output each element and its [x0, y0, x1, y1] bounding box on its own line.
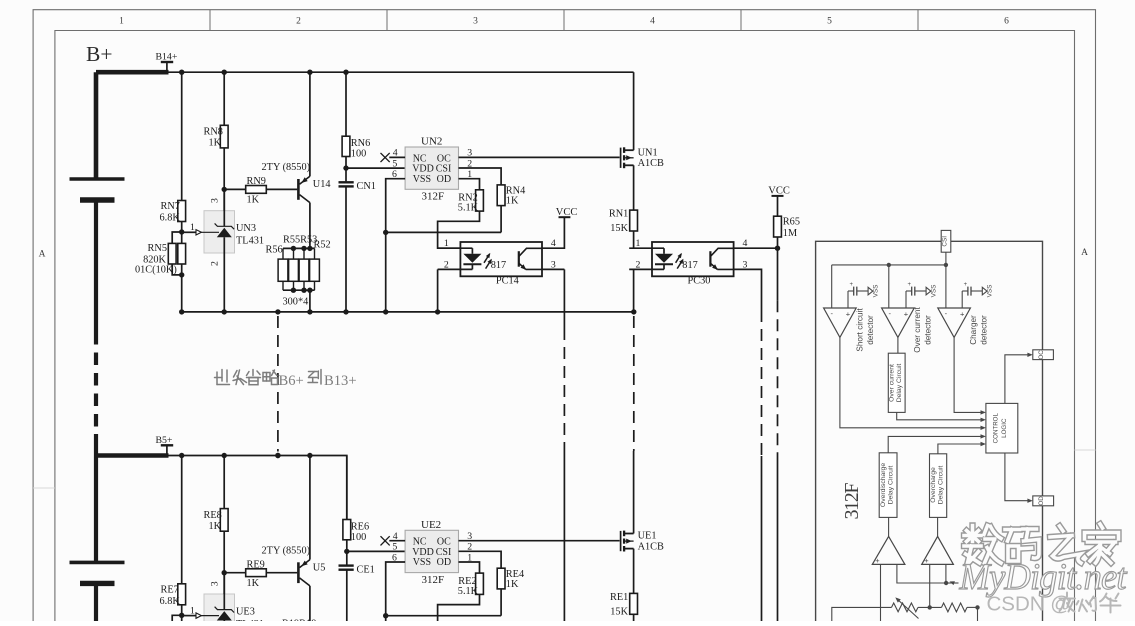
- svg-text:RE8: RE8: [204, 510, 222, 521]
- comparator Over current VSS arrow: [915, 290, 926, 292]
- svg-text:PC30: PC30: [688, 275, 711, 286]
- svg-text:R55R53: R55R53: [283, 235, 317, 246]
- wire RE6 to VDD node: [346, 540, 348, 565]
- svg-text:VSS: VSS: [987, 285, 994, 298]
- wire overdischarge comparator input 2: [897, 564, 946, 583]
- svg-text:817: 817: [491, 260, 506, 271]
- svg-text:Over current: Over current: [913, 307, 922, 353]
- wire to RN9: [224, 188, 246, 190]
- wire source of UN1 to RN1: [633, 165, 635, 210]
- svg-text:Overdischarge: Overdischarge: [880, 463, 887, 507]
- svg-text:RE9: RE9: [247, 559, 265, 570]
- resistor bank top bar: [283, 247, 315, 249]
- wire CSI pin 2 to RE4: [459, 551, 502, 568]
- svg-text:RN8: RN8: [204, 127, 223, 138]
- wire RE7 to divider node: [181, 605, 183, 616]
- svg-text:Short circuit: Short circuit: [856, 308, 865, 352]
- wire RN7 to divider node: [181, 222, 183, 233]
- svg-text:1: 1: [119, 17, 124, 27]
- wire RN9 to base of U14: [266, 188, 297, 190]
- resistor RE1: [630, 593, 638, 614]
- svg-text:UE2: UE2: [421, 519, 441, 531]
- svg-text:OD: OD: [437, 174, 451, 185]
- divider resistor zigzag: [942, 603, 968, 612]
- junction dashed at B5+ bus: [275, 453, 280, 458]
- wire collector down (clipped): [309, 586, 311, 621]
- svg-text:100: 100: [351, 149, 366, 160]
- svg-text:VSS: VSS: [872, 285, 879, 298]
- PC14 phototransistor base bar: [518, 251, 520, 267]
- right margin row divider: [1075, 449, 1096, 451]
- wire RN4 to VSS return: [500, 206, 502, 233]
- pin 4 stub with no-connect X: [389, 156, 405, 158]
- wire OD pin 1 to RN2: [459, 179, 480, 190]
- battery B5 positive plate: [70, 561, 125, 565]
- dashed wire PC14 pin3 net to lower section: [563, 328, 565, 451]
- svg-text:3: 3: [210, 198, 221, 203]
- power symbol VCC (PC14): [559, 216, 571, 218]
- svg-text:1: 1: [190, 605, 195, 616]
- block Over current Delay Circuit: [888, 353, 905, 412]
- svg-text:B14+: B14+: [156, 52, 178, 63]
- comparator Charger reference input wire: [961, 291, 963, 308]
- svg-text:B6+: B6+: [279, 373, 304, 389]
- resistor RN8: [220, 125, 228, 148]
- wire divider to lower bus: [181, 275, 183, 312]
- wire overdischarge comparator input 1: [880, 564, 882, 621]
- svg-text:5.1K: 5.1K: [458, 586, 479, 597]
- wire RN2 to opto LED anode: [438, 211, 480, 248]
- wire VDD node to pin 5: [347, 550, 405, 552]
- wire divider to output: [967, 606, 978, 608]
- MOSFET UE1 gate bar: [620, 531, 622, 551]
- transistor U14 collector: [300, 195, 310, 203]
- wire RE1 down: [633, 614, 635, 621]
- left margin row divider: [33, 487, 55, 489]
- svg-text:CE1: CE1: [357, 564, 375, 575]
- svg-text:CSDN @: CSDN @: [987, 593, 1072, 616]
- resistor RE9 horizontal: [246, 569, 267, 577]
- transistor U14 base bar: [297, 179, 300, 200]
- UN3 reference wire into triangle: [201, 231, 219, 233]
- svg-text:R65: R65: [783, 217, 800, 228]
- dashed wire drain rail to lower section: [633, 316, 635, 451]
- optocoupler PC14 body: [460, 242, 542, 276]
- block diagram 312F outline: [816, 241, 1043, 621]
- wire CSI net to charger detector: [945, 265, 947, 308]
- wire pin 1 into UN3: [182, 231, 196, 233]
- svg-text:UN3: UN3: [236, 223, 256, 234]
- wire source of UE1 to RE1: [633, 549, 635, 594]
- svg-text:6.8K: 6.8K: [160, 213, 181, 224]
- wire overcharge comparator input 1: [929, 564, 931, 606]
- PC30 pin 2 wire: [629, 268, 664, 270]
- wire PC30 pin 4 to VCC rail: [734, 247, 778, 249]
- node B5+ terminal bar: [161, 444, 173, 446]
- wire RE8 to UE3 cathode: [223, 531, 225, 594]
- wire between divider resistors: [918, 606, 942, 608]
- optocoupler PC30 body: [652, 242, 734, 276]
- svg-text:5: 5: [827, 17, 832, 27]
- wire PC30 pin 3: [734, 269, 762, 310]
- svg-text:VSS: VSS: [930, 285, 937, 298]
- svg-text:5: 5: [392, 542, 397, 553]
- PC30 LED cathode wire: [663, 264, 665, 269]
- wire CE1 to lower bus: [346, 570, 348, 621]
- UN3 cathode wire pin 3: [223, 189, 225, 226]
- wire drain of UE1: [633, 451, 635, 534]
- MOSFET UN1 drain stub: [624, 149, 634, 151]
- resistor RE6: [343, 520, 351, 540]
- junction VSS return: [383, 613, 388, 618]
- MOSFET UE1 channel segments: [623, 531, 625, 537]
- svg-text:RE6: RE6: [351, 521, 369, 532]
- junction R9 tap: [222, 187, 227, 192]
- svg-text:OD: OD: [1038, 496, 1045, 506]
- comparator Over current reference capacitor: [911, 287, 913, 296]
- svg-text:RE1: RE1: [610, 592, 628, 603]
- svg-text:15K: 15K: [610, 223, 628, 234]
- svg-text:2: 2: [296, 17, 301, 27]
- wire overcharge delay to control logic: [938, 444, 982, 454]
- svg-text:+: +: [964, 282, 968, 288]
- svg-text:UN1: UN1: [638, 147, 658, 158]
- MOSFET UN1 gate bar: [620, 148, 622, 168]
- PC30 LED anode: [663, 248, 665, 254]
- svg-text:OC: OC: [1038, 350, 1045, 360]
- wire VSS pin 6 return: [386, 179, 405, 312]
- svg-text:A1CB: A1CB: [638, 158, 664, 169]
- svg-text:15K: 15K: [610, 606, 628, 617]
- wire overdischarge delay to comparator: [888, 517, 890, 536]
- wire PC14 pin 2 to bus: [437, 269, 439, 312]
- wire RE9 to base of U5: [266, 572, 297, 574]
- wire RN8 to UN3 cathode: [223, 148, 225, 211]
- resistor RN1: [630, 210, 638, 231]
- wire B14+ bus thick segment: [96, 70, 169, 75]
- resistor RN9 horizontal: [246, 186, 267, 194]
- svg-text:1K: 1K: [247, 578, 260, 589]
- wire pin 1 into UE3: [182, 615, 196, 617]
- svg-text:2TY (8550): 2TY (8550): [262, 162, 311, 173]
- comparator Short circuit detector triangle: [824, 308, 857, 337]
- variable resistor zigzag: [892, 603, 919, 612]
- wire short circuit detector output: [840, 337, 982, 427]
- wire overcharge comparator input 2: [945, 564, 947, 583]
- wire to RE9: [224, 572, 246, 574]
- svg-text:817: 817: [682, 260, 697, 271]
- svg-text:312F: 312F: [422, 191, 445, 203]
- resistor pair below RE7 (clipped): [172, 615, 182, 626]
- wire divider tap down: [977, 607, 979, 621]
- comparator Short circuit reference capacitor: [853, 287, 855, 296]
- junction below divider resistors: [179, 272, 184, 277]
- junction R9 tap: [222, 570, 227, 575]
- svg-text:1: 1: [444, 238, 449, 249]
- svg-text:312F: 312F: [841, 483, 863, 520]
- UE3 triangle: [217, 611, 232, 620]
- wire CSI pin 2 to RN4: [459, 168, 502, 185]
- junction sense net: [944, 581, 948, 585]
- column dividers: [209, 10, 211, 31]
- PC14 LED anode: [471, 248, 473, 254]
- UE3 cathode wire pin 3: [223, 573, 225, 610]
- block CONTROL LOGIC: [986, 403, 1018, 453]
- junction dots on B5+ bus: [179, 453, 184, 458]
- shunt reference UN3 TL431 body: [204, 211, 235, 253]
- svg-text:detector: detector: [866, 315, 875, 345]
- battery stack wire between B5+ bus and B5 plate: [94, 456, 98, 563]
- svg-text:1: 1: [190, 222, 195, 233]
- svg-text:5: 5: [392, 158, 397, 169]
- wire B14+ bus: [166, 71, 634, 73]
- svg-text:B5+: B5+: [156, 435, 173, 446]
- svg-text:CN1: CN1: [357, 181, 376, 192]
- svg-text:2: 2: [636, 259, 641, 270]
- svg-text:+: +: [907, 282, 911, 288]
- wire overdischarge delay to control logic: [888, 436, 981, 452]
- wire CSI net to over current detector: [888, 265, 890, 308]
- svg-text:B+: B+: [86, 42, 112, 66]
- svg-text:4: 4: [393, 148, 398, 159]
- PC30 LED triangle: [655, 254, 673, 263]
- MOSFET UE1 body stub with arrow: [624, 540, 634, 542]
- resistor bank R56 R55 R53 R52: [282, 248, 284, 259]
- svg-text:+: +: [904, 310, 909, 319]
- wire VCC rail lower solid: [777, 456, 779, 621]
- battery stack wire below B5: [94, 583, 98, 621]
- svg-text:Over current: Over current: [889, 364, 896, 402]
- svg-text:A: A: [39, 250, 46, 260]
- svg-text:2TY (8550): 2TY (8550): [262, 545, 311, 556]
- svg-text:1: 1: [636, 238, 641, 249]
- svg-text:MyDigit.net: MyDigit.net: [959, 556, 1128, 597]
- wire bus to RN8: [223, 72, 225, 125]
- wire control logic to OC pin: [1005, 355, 1029, 404]
- wire B5+ bus thick segment: [96, 453, 169, 458]
- PC14 light arrows: [484, 254, 490, 263]
- wire bank to lower bus: [309, 290, 311, 312]
- svg-text:4: 4: [743, 238, 748, 249]
- junction dots middle bus: [179, 309, 184, 314]
- svg-text:UE1: UE1: [638, 531, 657, 542]
- wire control logic to OD pin: [1005, 453, 1029, 501]
- junction PC30 pin4 / R65: [775, 246, 780, 251]
- svg-text:RN6: RN6: [351, 138, 370, 149]
- wire bus to RE7: [181, 456, 183, 584]
- svg-text:detector: detector: [924, 315, 933, 345]
- svg-text:A: A: [1081, 248, 1088, 258]
- PC30 phototransistor emitter: [710, 263, 717, 269]
- PC30 pin 1 wire: [629, 247, 664, 249]
- svg-text:100: 100: [351, 532, 366, 543]
- block Overcharge Delay Circuit: [930, 454, 947, 518]
- transistor U14 emitter: [300, 176, 310, 184]
- svg-text:TL431: TL431: [236, 236, 264, 247]
- svg-text:4: 4: [551, 238, 556, 249]
- protection IC UN2 312F body: [405, 147, 458, 189]
- svg-text:1K: 1K: [209, 138, 222, 149]
- svg-text:3: 3: [473, 17, 478, 27]
- wire B5+ bus: [166, 456, 347, 520]
- wire OD pin 1 to RE2: [459, 562, 480, 573]
- comparator Charger reference capacitor: [967, 287, 969, 296]
- battery stack thick bus wire (top): [94, 72, 99, 179]
- svg-text:VCC: VCC: [556, 207, 578, 218]
- battery B14 negative plate: [80, 197, 115, 202]
- wire VCC to R65: [777, 196, 779, 216]
- wire R65 to pin4 node: [777, 237, 779, 300]
- wire emitter to bus: [309, 456, 311, 560]
- svg-text:Delay Circuit: Delay Circuit: [938, 466, 945, 505]
- protection IC UE2 312F body: [405, 530, 458, 572]
- junction dots CSI net: [887, 263, 891, 267]
- resistor RE2: [476, 573, 484, 594]
- shunt reference UE3 TL431 body: [204, 594, 235, 626]
- comparator Over current detector triangle: [882, 308, 915, 337]
- MOSFET UE1 drain stub: [624, 533, 634, 535]
- svg-text:1K: 1K: [506, 579, 519, 590]
- svg-text:300*4: 300*4: [283, 297, 309, 308]
- comparator Short circuit reference input wire: [847, 291, 849, 308]
- capacitor CN1: [339, 181, 354, 183]
- comparator overcharge detector triangle: [922, 536, 954, 564]
- svg-text:VCC: VCC: [768, 185, 790, 196]
- svg-text:VSS: VSS: [413, 174, 431, 185]
- comparator Charger detector triangle: [938, 308, 971, 337]
- UE3 cathode bar: [215, 607, 235, 613]
- UE3 reference wire into triangle: [201, 615, 219, 617]
- resistor R65: [774, 216, 782, 237]
- svg-text:detector: detector: [980, 315, 989, 345]
- svg-text:A1CB: A1CB: [638, 541, 664, 552]
- PC30 phototransistor collector: [710, 248, 733, 256]
- junction VSS return: [383, 230, 388, 235]
- svg-text:Delay Circuit: Delay Circuit: [888, 466, 895, 505]
- wire VDD node to pin 5: [346, 167, 405, 169]
- wire over current delay output: [897, 412, 982, 419]
- UN3 cathode bar: [215, 223, 235, 229]
- wire PC14 collector to pin 4 and VCC: [542, 217, 564, 248]
- UN3 triangle: [217, 228, 232, 237]
- svg-text:+: +: [846, 310, 851, 319]
- wire CSI net to short circuit detector: [831, 265, 833, 308]
- comparator Over current reference input wire: [905, 291, 907, 308]
- resistor RN4: [497, 185, 505, 206]
- svg-text:6: 6: [1004, 17, 1009, 27]
- svg-text:1M: 1M: [783, 228, 797, 239]
- svg-text:1K: 1K: [209, 521, 222, 532]
- wire RE2 to opto LED anode: [438, 594, 480, 621]
- svg-text:2: 2: [210, 261, 221, 266]
- MOSFET UN1 channel segments: [623, 147, 625, 153]
- svg-text:OD: OD: [437, 557, 451, 568]
- wire PC30 pin 2 to bus: [633, 269, 635, 312]
- svg-text:RN9: RN9: [247, 176, 266, 187]
- resistor bank bottom bar: [283, 289, 315, 291]
- transistor U5 collector: [300, 578, 310, 586]
- pin 1 arrow of UE3: [196, 613, 201, 618]
- svg-text:+: +: [924, 556, 929, 565]
- svg-text:Overcharge: Overcharge: [930, 467, 937, 503]
- pin box OC: [1033, 350, 1054, 360]
- PC14 pin 1 wire: [438, 247, 473, 249]
- wire charger detector output: [954, 337, 981, 412]
- PC14 LED cathode bar: [463, 263, 481, 265]
- svg-text:PC14: PC14: [496, 275, 519, 286]
- svg-text:4: 4: [650, 17, 655, 27]
- wire RN6 to VDD node: [345, 157, 347, 182]
- svg-text:+: +: [849, 282, 853, 288]
- wire OC pin 3 to gate of UN1: [459, 156, 620, 158]
- svg-text:Delay Circuit: Delay Circuit: [896, 364, 903, 403]
- wire PC14 emitter pin 3 drop: [542, 268, 564, 270]
- battery stack wire above B5: [94, 434, 98, 456]
- pin box OD: [1033, 496, 1054, 506]
- resistor RE7: [178, 584, 186, 605]
- battery B5 negative plate: [80, 581, 115, 586]
- wire collector to resistor bank: [309, 203, 311, 249]
- svg-text:1K: 1K: [247, 195, 260, 206]
- wire drain of UN1: [633, 72, 635, 150]
- wire bus to RN7: [181, 72, 183, 200]
- wire OC pin 3 to gate of UE1: [459, 540, 620, 542]
- wire bus to RN6: [345, 72, 347, 136]
- PC14 pin 2 wire: [438, 268, 473, 270]
- MOSFET UN1 body stub with arrow: [624, 157, 634, 159]
- svg-text:VSS: VSS: [413, 557, 431, 568]
- resistor RN2: [476, 190, 484, 211]
- svg-text:4: 4: [393, 531, 398, 542]
- svg-text:RE7: RE7: [161, 584, 179, 595]
- node B14+ terminal bar: [161, 61, 173, 63]
- transistor U5 base bar: [297, 562, 300, 583]
- wire bus to RE6: [346, 456, 348, 520]
- PC30 phototransistor base bar: [709, 251, 711, 267]
- note text omitted cells: [215, 370, 261, 385]
- reference resistor rail: [832, 607, 892, 621]
- svg-text:B13+: B13+: [324, 373, 357, 389]
- svg-text:RN7: RN7: [161, 201, 180, 212]
- wire middle bus B13+: [182, 311, 634, 313]
- wire over current detector to delay: [897, 337, 899, 353]
- PC14 phototransistor collector: [519, 248, 542, 256]
- junction VDD node: [343, 165, 348, 170]
- junction VDD node: [344, 549, 349, 554]
- svg-text:UN2: UN2: [421, 136, 442, 148]
- PC14 phototransistor emitter: [519, 263, 526, 269]
- svg-text:U14: U14: [313, 179, 331, 190]
- junction dots on B14+ bus: [179, 70, 184, 75]
- comparator Short circuit VSS arrow: [857, 290, 868, 292]
- wire CN1 to lower bus: [345, 186, 347, 312]
- pin 1 arrow of UN3: [196, 230, 201, 235]
- wire PC30 pin3 lower solid: [761, 456, 763, 621]
- battery stack wire below B14: [94, 200, 98, 332]
- wire CSI to comparator inputs: [945, 252, 947, 265]
- svg-text:5.1K: 5.1K: [458, 203, 479, 214]
- svg-text:R56: R56: [266, 245, 283, 256]
- junction divider node: [179, 229, 184, 234]
- wire PC14 pin3 net lower solid: [563, 451, 565, 621]
- svg-text:RN1: RN1: [609, 209, 628, 220]
- svg-text:312F: 312F: [422, 574, 445, 586]
- resistor RE8: [220, 509, 228, 532]
- svg-text:UE3: UE3: [236, 606, 255, 617]
- resistor RE4: [497, 568, 505, 589]
- resistor RN7: [178, 201, 186, 222]
- battery B14 positive plate: [70, 177, 125, 181]
